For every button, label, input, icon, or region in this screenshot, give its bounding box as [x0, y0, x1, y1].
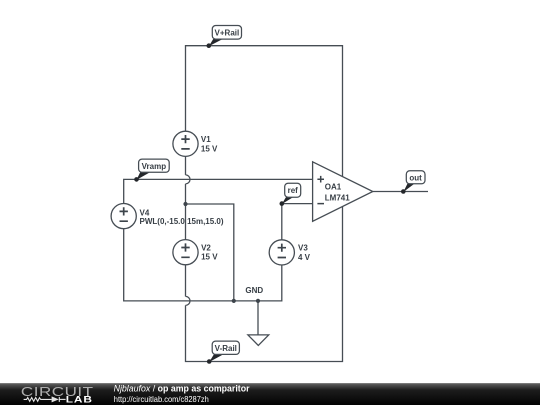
svg-text:LM741: LM741 — [325, 194, 350, 203]
svg-text:V-Rail: V-Rail — [215, 344, 237, 353]
svg-text:V3: V3 — [298, 243, 308, 252]
svg-text:15 V: 15 V — [201, 144, 218, 153]
svg-text:4 V: 4 V — [298, 253, 311, 262]
svg-text:Vramp: Vramp — [142, 162, 167, 171]
svg-text:ref: ref — [288, 186, 299, 195]
svg-text:PWL(0,-15.0 15m,15.0): PWL(0,-15.0 15m,15.0) — [140, 217, 224, 226]
svg-text:V2: V2 — [201, 243, 211, 252]
svg-text:V+Rail: V+Rail — [215, 28, 240, 37]
svg-text:OA1: OA1 — [325, 182, 342, 191]
svg-text:http://circuitlab.com/c8287zh: http://circuitlab.com/c8287zh — [114, 394, 209, 404]
svg-text:Njblaufox / op amp as comparit: Njblaufox / op amp as comparitor — [114, 384, 251, 394]
svg-text:V4: V4 — [140, 208, 150, 217]
svg-text:GND: GND — [245, 286, 263, 295]
svg-text:V1: V1 — [201, 135, 211, 144]
svg-text:15 V: 15 V — [201, 253, 218, 262]
svg-text:LAB: LAB — [66, 395, 93, 405]
svg-text:out: out — [409, 173, 422, 182]
